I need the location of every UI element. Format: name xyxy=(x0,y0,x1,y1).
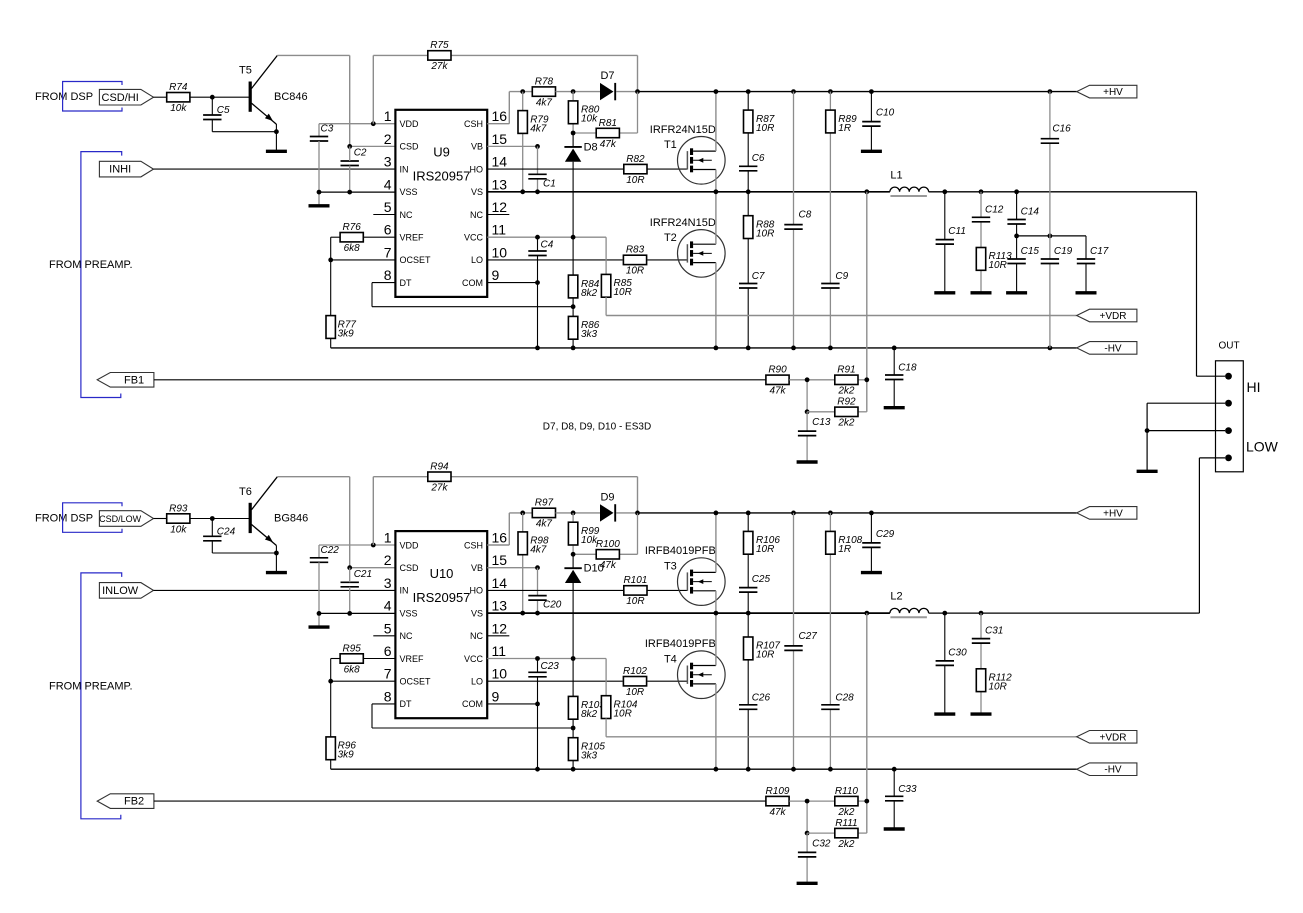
wire VSS line xyxy=(317,190,396,195)
svg-text:C8: C8 xyxy=(799,210,812,221)
svg-text:NC: NC xyxy=(400,210,413,220)
capacitor C26 xyxy=(739,692,770,709)
wire output line xyxy=(929,189,1197,194)
node FB1 xyxy=(97,373,154,388)
svg-text:T6: T6 xyxy=(239,486,252,498)
svg-text:R111: R111 xyxy=(835,818,857,829)
wire VB net xyxy=(487,565,540,570)
svg-text:IN: IN xyxy=(400,586,409,596)
svg-text:VB: VB xyxy=(471,142,483,152)
wire R94 net xyxy=(373,477,637,545)
wire CSD/LOW to R93 xyxy=(154,518,167,520)
svg-text:R101: R101 xyxy=(623,575,647,586)
resistor R103 xyxy=(568,696,605,720)
svg-text:C12: C12 xyxy=(985,204,1004,215)
diode D7 xyxy=(600,70,615,100)
svg-text:10: 10 xyxy=(492,244,508,260)
resistor R81 xyxy=(596,118,619,150)
bracket FROM DSP (bottom channel) xyxy=(63,503,122,533)
svg-text:R90: R90 xyxy=(768,365,787,376)
wire +HV rail xyxy=(638,89,1077,94)
capacitor C24 xyxy=(203,526,235,541)
svg-text:T2: T2 xyxy=(664,232,677,244)
svg-text:U9: U9 xyxy=(433,145,450,160)
wire NC pin12 stub xyxy=(487,635,509,637)
wire OUT pin3 wire xyxy=(1145,403,1225,471)
wire OCSET wire xyxy=(328,679,395,738)
svg-text:R75: R75 xyxy=(430,40,449,51)
ground at C32 xyxy=(797,882,818,885)
wire R80 stems xyxy=(572,92,574,133)
svg-text:IRFB4019PFB: IRFB4019PFB xyxy=(645,545,716,557)
resistor R89 xyxy=(826,110,857,134)
capacitor C23 xyxy=(528,661,559,677)
resistor R86 xyxy=(568,316,599,340)
ground at R113 xyxy=(971,291,992,294)
svg-text:2k2: 2k2 xyxy=(837,386,855,397)
svg-text:14: 14 xyxy=(492,154,508,170)
wire C4 stems xyxy=(537,237,539,348)
wire node R99-R100 xyxy=(571,513,638,557)
ground at C18 xyxy=(884,406,905,409)
svg-text:12: 12 xyxy=(492,199,508,215)
svg-text:VSS: VSS xyxy=(400,187,418,197)
ground at T5 emitter xyxy=(266,150,287,153)
wire VDD net xyxy=(319,543,395,558)
svg-text:C1: C1 xyxy=(543,178,556,189)
wire HO wire xyxy=(487,168,687,170)
svg-text:C32: C32 xyxy=(812,838,831,849)
svg-text:11: 11 xyxy=(492,643,507,659)
resistor R77 xyxy=(326,316,356,340)
svg-text:C6: C6 xyxy=(752,153,765,164)
svg-text:C10: C10 xyxy=(876,108,895,119)
resistor R82 xyxy=(624,154,647,186)
svg-text:C7: C7 xyxy=(752,271,765,282)
ground at OUT xyxy=(1137,470,1158,473)
capacitor C20 xyxy=(528,596,561,611)
wire NC pin12 stub xyxy=(487,214,509,216)
svg-text:2: 2 xyxy=(384,552,392,568)
wire C2 stems xyxy=(349,146,351,192)
wire C12 column xyxy=(980,192,982,292)
wire C14 column xyxy=(1016,192,1018,236)
resistor R110 xyxy=(835,786,859,818)
wire R99 stems xyxy=(572,513,574,554)
wire R89 column xyxy=(829,92,831,348)
wire VCC net xyxy=(487,656,606,695)
capacitor C30 xyxy=(936,647,967,665)
ground at C22 xyxy=(309,625,330,628)
resistor R75 xyxy=(428,40,451,72)
wire R111 wires xyxy=(807,832,867,834)
ground at C30 xyxy=(934,712,955,715)
svg-text:C29: C29 xyxy=(876,529,895,540)
capacitor C10 xyxy=(862,108,894,127)
svg-text:R102: R102 xyxy=(623,666,647,677)
node INLOW xyxy=(99,583,153,599)
text FROM PREAMP (top channel) xyxy=(49,259,133,271)
svg-text:+HV: +HV xyxy=(1103,508,1123,519)
text diode note xyxy=(543,422,651,433)
svg-text:C13: C13 xyxy=(812,417,831,428)
wire C10 column xyxy=(870,92,872,151)
ground at C29 xyxy=(861,571,882,574)
wire -HV rail xyxy=(331,767,1077,772)
wire R76 wires xyxy=(331,237,396,260)
wire feedback column xyxy=(866,192,868,412)
diode D9 xyxy=(600,491,615,521)
inductor L2 xyxy=(890,591,929,618)
wire CSD/HI to R74 xyxy=(154,96,167,98)
wire CSH wire xyxy=(487,89,532,124)
resistor R80 xyxy=(568,101,599,125)
svg-text:1: 1 xyxy=(384,108,392,124)
wire R90-R91 node xyxy=(789,377,869,414)
text FROM DSP (top channel) xyxy=(35,91,93,103)
wire R103 stems xyxy=(572,659,574,697)
svg-text:VDD: VDD xyxy=(400,119,420,129)
wire R87 column xyxy=(747,92,749,192)
node +HV xyxy=(1077,85,1137,98)
ground at C11 xyxy=(934,291,955,294)
capacitor C13 xyxy=(798,417,831,436)
wire C17 stems xyxy=(1085,236,1087,292)
svg-text:CSH: CSH xyxy=(464,119,483,129)
wire R77 bottom xyxy=(330,338,332,348)
wire +HV rail xyxy=(638,511,1077,516)
wire R88 column xyxy=(747,192,749,348)
svg-text:7: 7 xyxy=(384,244,392,260)
svg-text:3k3: 3k3 xyxy=(581,750,598,761)
svg-text:C2: C2 xyxy=(354,148,367,159)
svg-text:VREF: VREF xyxy=(400,233,425,243)
svg-text:LO: LO xyxy=(471,677,483,687)
svg-text:10R: 10R xyxy=(756,544,774,555)
capacitor C19 xyxy=(1041,246,1073,264)
wire R97 to D9 xyxy=(556,511,640,516)
svg-text:3: 3 xyxy=(384,575,392,591)
wire C27 column xyxy=(793,513,795,769)
node CSD/HI xyxy=(99,89,153,105)
svg-text:47k: 47k xyxy=(600,139,617,150)
svg-text:10k: 10k xyxy=(170,103,187,114)
svg-text:4k7: 4k7 xyxy=(530,123,547,134)
wire node R80-R81 xyxy=(571,92,638,136)
svg-text:C23: C23 xyxy=(541,661,560,672)
resistor R96 xyxy=(326,737,356,761)
capacitor C5 xyxy=(203,105,230,120)
svg-text:CSD/HI: CSD/HI xyxy=(102,92,139,104)
wire T5 collector to CSD xyxy=(277,55,349,146)
svg-text:INHI: INHI xyxy=(109,164,131,176)
wire DT net xyxy=(372,283,575,310)
wire VS rail xyxy=(487,611,890,616)
transistor T5 xyxy=(239,56,308,125)
node +VDR xyxy=(1077,731,1137,744)
svg-text:13: 13 xyxy=(492,176,508,192)
svg-text:T4: T4 xyxy=(664,654,677,666)
svg-text:C17: C17 xyxy=(1090,246,1109,257)
capacitor C33 xyxy=(885,784,917,801)
wire R104 to +VDR xyxy=(605,718,607,736)
wire R84 stems xyxy=(572,237,574,275)
svg-text:+HV: +HV xyxy=(1103,87,1123,98)
svg-text:C31: C31 xyxy=(985,626,1003,637)
svg-text:R91: R91 xyxy=(837,365,855,376)
svg-text:4k7: 4k7 xyxy=(530,545,547,556)
svg-text:C20: C20 xyxy=(543,600,562,611)
wire R93 to T6 base xyxy=(190,516,249,521)
svg-text:D9: D9 xyxy=(600,491,614,503)
svg-text:INLOW: INLOW xyxy=(102,585,139,597)
capacitor C11 xyxy=(936,226,966,244)
svg-text:R94: R94 xyxy=(430,462,449,473)
svg-text:8k2: 8k2 xyxy=(581,709,598,720)
svg-text:8k2: 8k2 xyxy=(581,288,598,299)
svg-text:C18: C18 xyxy=(898,363,917,374)
wire OUT pin2 wire xyxy=(1147,402,1225,404)
capacitor C17 xyxy=(1077,246,1109,264)
wire R107 column xyxy=(747,613,749,769)
svg-text:R97: R97 xyxy=(535,498,554,509)
svg-text:10R: 10R xyxy=(626,596,644,607)
resistor R91 xyxy=(835,365,858,397)
svg-text:C5: C5 xyxy=(217,105,230,116)
svg-text:3k9: 3k9 xyxy=(338,328,355,339)
resistor R104 xyxy=(601,696,637,720)
wire T5 emitter xyxy=(274,124,279,151)
transistor T6 xyxy=(239,477,308,546)
svg-text:BG846: BG846 xyxy=(274,512,308,524)
wire R75 net xyxy=(373,55,637,123)
wire VDD net xyxy=(319,121,395,136)
svg-text:HO: HO xyxy=(470,164,484,174)
ground at C33 xyxy=(884,827,905,830)
wire LO wire xyxy=(487,259,687,261)
svg-text:5: 5 xyxy=(384,199,392,215)
svg-text:L1: L1 xyxy=(890,169,902,181)
svg-text:D7, D8, D9, D10 - ES3D: D7, D8, D9, D10 - ES3D xyxy=(543,422,651,433)
resistor R101 xyxy=(623,575,647,607)
wire C32 stems xyxy=(806,833,808,883)
resistor R76 xyxy=(340,222,363,254)
svg-text:10R: 10R xyxy=(614,287,632,298)
svg-text:C19: C19 xyxy=(1054,246,1073,257)
capacitor C31 xyxy=(972,626,1004,644)
svg-text:10R: 10R xyxy=(626,266,644,277)
svg-text:FB2: FB2 xyxy=(124,796,144,808)
svg-text:COM: COM xyxy=(462,278,483,288)
svg-text:2k2: 2k2 xyxy=(837,839,855,850)
wire C33 stems xyxy=(893,769,895,828)
svg-text:4k7: 4k7 xyxy=(536,519,553,530)
wire LO wire xyxy=(487,680,687,682)
node +HV xyxy=(1077,507,1137,520)
wire C3 lower stem xyxy=(318,141,320,205)
svg-text:C9: C9 xyxy=(835,271,848,282)
transistor T3 xyxy=(645,545,725,605)
resistor R92 xyxy=(835,397,858,429)
svg-text:U10: U10 xyxy=(430,566,454,581)
svg-text:+VDR: +VDR xyxy=(1100,311,1127,322)
svg-text:C24: C24 xyxy=(217,526,236,537)
capacitor C22 xyxy=(310,545,339,563)
wire R84-R86 link xyxy=(572,298,574,317)
text FROM DSP (bottom channel) xyxy=(35,513,93,525)
ground at C13 xyxy=(797,460,818,463)
wire C18 stems xyxy=(893,348,895,407)
svg-text:CSD: CSD xyxy=(400,142,420,152)
svg-text:10R: 10R xyxy=(756,650,774,661)
svg-text:9: 9 xyxy=(492,688,500,704)
svg-text:NC: NC xyxy=(470,210,483,220)
svg-text:13: 13 xyxy=(492,598,508,614)
transistor T2 xyxy=(650,217,725,277)
wire R74 to T5 base xyxy=(190,95,249,100)
wire CSD net xyxy=(347,565,395,570)
svg-text:15: 15 xyxy=(492,131,508,147)
resistor R97 xyxy=(532,498,555,530)
svg-text:6: 6 xyxy=(384,643,392,659)
resistor R108 xyxy=(826,531,863,555)
svg-text:OCSET: OCSET xyxy=(400,255,432,265)
resistor R98 xyxy=(518,532,549,556)
svg-text:CSD: CSD xyxy=(400,563,420,573)
svg-text:VS: VS xyxy=(471,608,483,618)
wire -HV rail xyxy=(331,346,1077,351)
svg-text:VS: VS xyxy=(471,187,483,197)
svg-text:10R: 10R xyxy=(756,228,774,239)
wire C22 lower stem xyxy=(318,562,320,626)
IC U9 IRS20957 xyxy=(384,108,508,297)
svg-text:R100: R100 xyxy=(596,539,620,550)
capacitor C12 xyxy=(972,204,1004,222)
svg-text:C26: C26 xyxy=(752,692,771,703)
wire FB2 line xyxy=(154,800,766,802)
wire C23 stems xyxy=(537,659,539,770)
svg-text:14: 14 xyxy=(492,575,508,591)
svg-text:LOW: LOW xyxy=(1246,439,1279,455)
svg-text:T1: T1 xyxy=(664,139,677,151)
svg-text:NC: NC xyxy=(400,631,413,641)
wire VCC net xyxy=(487,235,606,274)
wire NC pin5 stub xyxy=(373,635,395,637)
capacitor C18 xyxy=(885,363,917,380)
capacitor C16 xyxy=(1041,124,1071,144)
svg-text:4k7: 4k7 xyxy=(536,97,553,108)
wire R92 wires xyxy=(807,411,867,413)
IC U10 IRS20957 xyxy=(384,530,508,719)
svg-text:10k: 10k xyxy=(170,524,187,535)
svg-text:R95: R95 xyxy=(343,643,362,654)
svg-text:6k8: 6k8 xyxy=(344,664,361,675)
bracket FROM PREAMP (top channel) xyxy=(81,152,122,398)
wire INHI line xyxy=(154,168,396,170)
wire R96 bottom xyxy=(330,760,332,770)
svg-text:C25: C25 xyxy=(752,574,771,585)
resistor R93 xyxy=(167,503,190,535)
wire HO wire xyxy=(487,589,687,591)
svg-text:R110: R110 xyxy=(835,786,859,797)
ground at C3 xyxy=(309,204,330,207)
wire VSS line xyxy=(317,611,396,616)
wire C5 stem xyxy=(212,97,276,132)
capacitor C3 xyxy=(310,124,334,142)
svg-text:27k: 27k xyxy=(430,483,448,494)
wire R78 to D7 xyxy=(556,89,640,94)
svg-text:6: 6 xyxy=(384,222,392,238)
svg-text:DT: DT xyxy=(400,699,412,709)
svg-text:R92: R92 xyxy=(837,397,856,408)
capacitor C15 xyxy=(1007,246,1039,264)
svg-text:27k: 27k xyxy=(430,61,448,72)
wire R86 bottom xyxy=(572,339,574,348)
resistor R100 xyxy=(596,539,620,571)
ground at R112 xyxy=(971,712,992,715)
svg-text:T5: T5 xyxy=(239,65,252,77)
wire half-bridge column xyxy=(715,92,717,348)
svg-text:C15: C15 xyxy=(1021,246,1040,257)
svg-text:C22: C22 xyxy=(321,545,340,556)
wire T6 emitter xyxy=(274,545,279,572)
wire R79 stems xyxy=(522,92,524,192)
ground at C15 xyxy=(1006,291,1027,294)
bracket FROM PREAMP (bottom channel) xyxy=(81,573,122,819)
wire half-bridge column xyxy=(715,513,717,769)
capacitor C2 xyxy=(341,148,367,166)
svg-text:IRFR24N15D: IRFR24N15D xyxy=(650,217,716,229)
svg-text:R93: R93 xyxy=(169,503,188,514)
ground at C17 xyxy=(1076,291,1097,294)
svg-text:FROM PREAMP.: FROM PREAMP. xyxy=(49,259,133,271)
svg-text:C28: C28 xyxy=(835,692,854,703)
svg-text:15: 15 xyxy=(492,552,508,568)
svg-text:FROM DSP: FROM DSP xyxy=(35,91,93,103)
bracket FROM DSP (top channel) xyxy=(63,82,122,112)
wire C20 stems xyxy=(537,568,539,613)
wire node row xyxy=(1014,234,1086,239)
diode D10 xyxy=(564,563,603,583)
wire C1 stems xyxy=(537,146,539,191)
svg-text:CSD/LOW: CSD/LOW xyxy=(99,514,142,524)
node CSD/LOW xyxy=(99,511,153,527)
text FROM PREAMP (bottom channel) xyxy=(49,680,133,692)
resistor R112 xyxy=(976,669,1012,693)
capacitor C14 xyxy=(1007,207,1039,225)
svg-text:10: 10 xyxy=(492,666,508,682)
svg-text:16: 16 xyxy=(492,530,508,546)
svg-text:10R: 10R xyxy=(989,260,1007,271)
svg-text:3: 3 xyxy=(384,154,392,170)
resistor R107 xyxy=(744,637,781,661)
svg-text:R74: R74 xyxy=(169,82,188,93)
wire CSH wire xyxy=(487,511,532,545)
capacitor C6 xyxy=(739,153,765,171)
wire R85 to +VDR xyxy=(605,297,607,315)
wire DT net xyxy=(372,704,575,730)
svg-text:L2: L2 xyxy=(890,591,902,603)
svg-text:C14: C14 xyxy=(1021,207,1040,218)
svg-text:VREF: VREF xyxy=(400,654,425,664)
svg-text:2: 2 xyxy=(384,131,392,147)
resistor R109 xyxy=(766,786,790,818)
svg-text:12: 12 xyxy=(492,620,508,636)
resistor R88 xyxy=(744,216,775,240)
svg-text:2k2: 2k2 xyxy=(837,807,855,818)
wire NC pin5 stub xyxy=(373,214,395,216)
resistor R79 xyxy=(518,111,549,135)
